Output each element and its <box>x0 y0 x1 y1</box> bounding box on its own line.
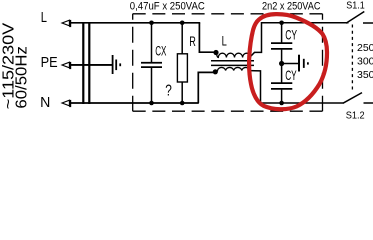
dashed enclosure box top edge <box>133 13 323 15</box>
resistor R <box>177 23 187 103</box>
wire N bottom rail <box>71 102 199 104</box>
terminal arrow PE <box>62 62 70 69</box>
inductor L winding top <box>213 50 250 58</box>
ground CY <box>299 55 308 72</box>
svg-text:60/50Hz: 60/50Hz <box>14 46 31 109</box>
svg-text:L: L <box>222 33 227 49</box>
wire L top rail <box>71 22 201 24</box>
terminal arrow N <box>62 100 70 107</box>
wire PE <box>71 64 113 66</box>
wire S1.2 right <box>364 102 373 104</box>
svg-text:CY: CY <box>285 27 297 43</box>
terminal arrow L <box>62 20 70 27</box>
svg-text:CX: CX <box>155 44 166 60</box>
junction CY top <box>279 20 284 25</box>
svg-text:0,47uF x 250VAC: 0,47uF x 250VAC <box>130 1 205 13</box>
dashed enclosure box left edge <box>132 14 134 111</box>
ground PE <box>113 55 121 74</box>
capacitor CX <box>141 23 162 103</box>
svg-text:S1.2: S1.2 <box>346 110 365 122</box>
svg-text:?: ? <box>165 82 172 99</box>
wire bottom rail to choke <box>198 72 213 103</box>
svg-text:2n2 x 250VAC: 2n2 x 250VAC <box>262 1 321 13</box>
wire S1.1 right <box>363 22 373 24</box>
junction CY mid <box>279 61 284 66</box>
junction CX bottom <box>149 101 154 106</box>
capacitor CY top <box>271 23 292 64</box>
svg-text:R: R <box>189 33 196 49</box>
wire choke top out <box>250 23 349 57</box>
svg-text:S1.1: S1.1 <box>346 0 365 12</box>
annotation red ellipse <box>249 14 327 109</box>
connector bus line 1 <box>82 22 84 104</box>
label mains rating rotated text <box>1 22 31 109</box>
inductor L winding bottom <box>213 67 250 74</box>
svg-text:CY: CY <box>285 67 297 83</box>
svg-text:N: N <box>40 94 50 111</box>
switch S1.2 blade <box>343 93 362 104</box>
svg-text:2500: 2500 <box>357 42 373 54</box>
svg-text:PE: PE <box>41 54 58 71</box>
capacitor CY bottom <box>271 64 292 104</box>
wire top rail to choke <box>199 23 213 52</box>
wire choke bottom out <box>250 71 343 103</box>
junction R bottom <box>180 101 185 106</box>
dashed enclosure box right edge <box>322 14 324 111</box>
switch S1.1 blade <box>346 12 364 24</box>
svg-text:L: L <box>41 9 47 26</box>
inductor core lines <box>211 61 254 66</box>
svg-text:3000: 3000 <box>357 55 373 67</box>
svg-text:3500: 3500 <box>357 69 373 81</box>
junction CX top <box>149 20 154 25</box>
junction R top <box>180 20 185 25</box>
switch linkage dashed <box>351 25 353 92</box>
wire CY mid to ground <box>282 63 299 65</box>
junction CY bottom <box>279 101 284 106</box>
connector bus line 2 <box>88 22 90 104</box>
dashed enclosure box bottom edge <box>133 110 323 112</box>
